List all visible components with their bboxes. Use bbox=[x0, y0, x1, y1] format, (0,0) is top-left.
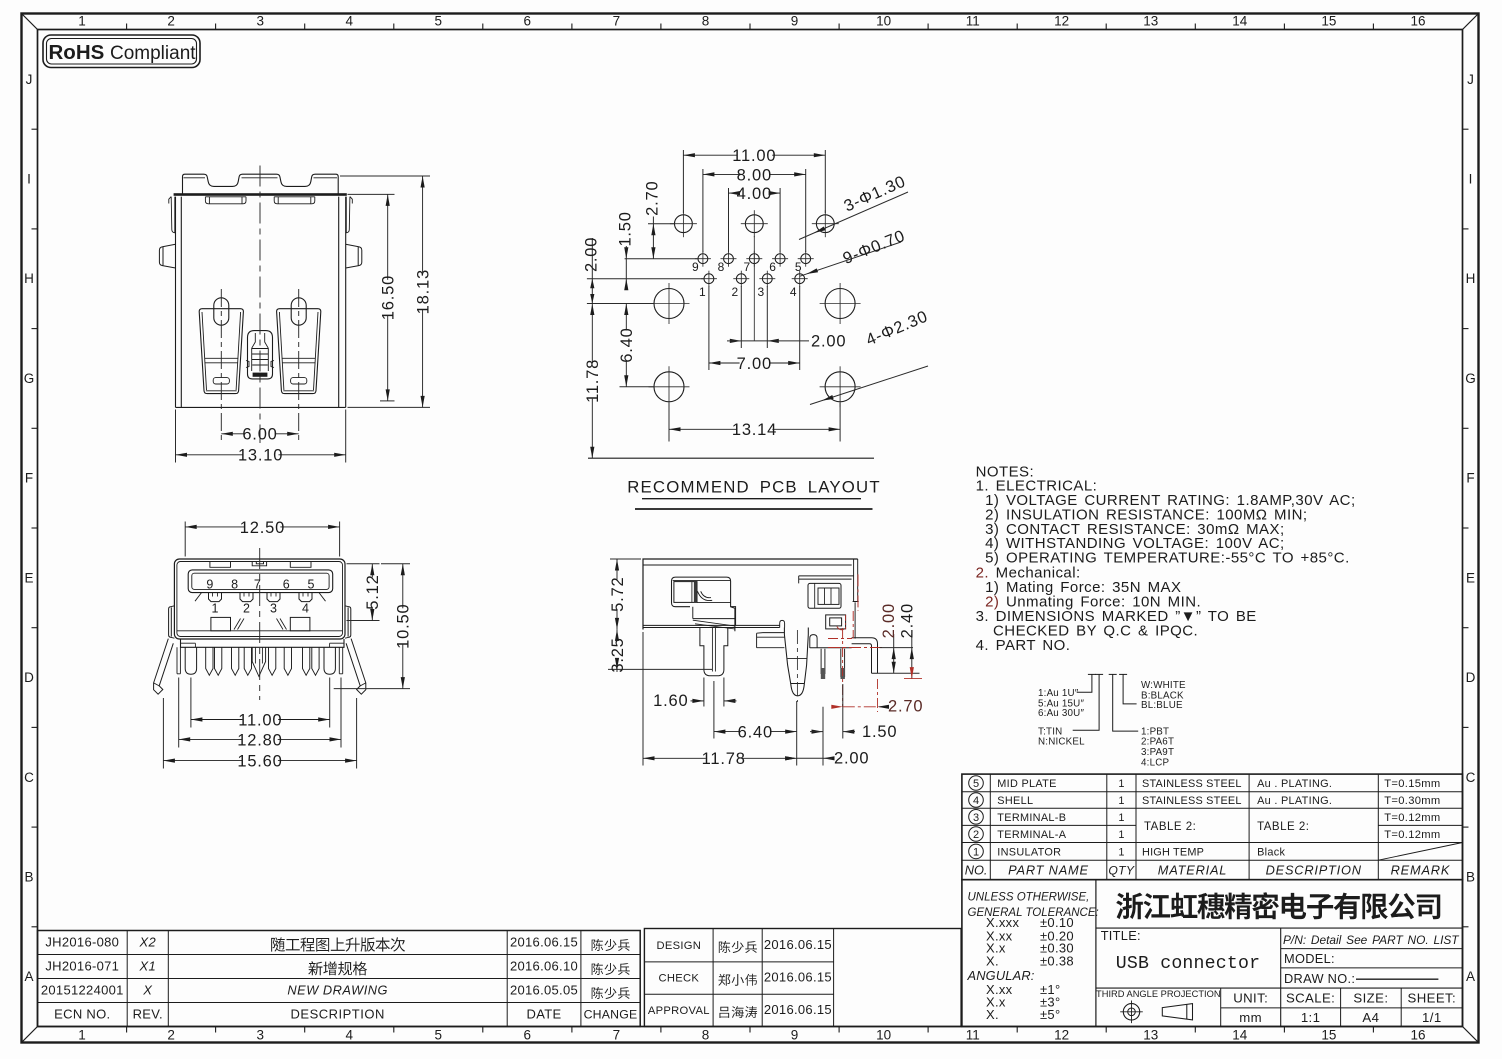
PCB dim 8.00 bbox=[703, 166, 806, 252]
svg-text:12: 12 bbox=[1054, 1028, 1069, 1043]
svg-text:11.00: 11.00 bbox=[732, 147, 776, 165]
svg-text:APPROVAL: APPROVAL bbox=[648, 1005, 710, 1017]
svg-text:Au . PLATING.: Au . PLATING. bbox=[1257, 778, 1332, 790]
svg-text:3.25: 3.25 bbox=[609, 637, 627, 672]
PCB dim 7.00 bbox=[709, 286, 800, 373]
svg-text:CHECK: CHECK bbox=[658, 973, 699, 985]
svg-text:USB connector: USB connector bbox=[1116, 954, 1261, 974]
dim 1.60 bbox=[653, 678, 736, 710]
svg-text:STAINLESS STEEL: STAINLESS STEEL bbox=[1142, 795, 1242, 807]
svg-text:2.00: 2.00 bbox=[811, 333, 846, 351]
svg-text:6.40: 6.40 bbox=[618, 327, 636, 362]
svg-text:B: B bbox=[1466, 870, 1475, 885]
svg-text:TITLE:: TITLE: bbox=[1101, 928, 1141, 943]
svg-text:A: A bbox=[1466, 969, 1475, 984]
svg-text:W:WHITE: W:WHITE bbox=[1141, 680, 1186, 691]
PCB layout: 9 x 0.70 pin holes bbox=[695, 251, 814, 287]
svg-text:STAINLESS STEEL: STAINLESS STEEL bbox=[1142, 778, 1242, 790]
svg-text:2: 2 bbox=[243, 601, 250, 615]
front view center line bbox=[259, 548, 261, 700]
PCB dim 4.00 bbox=[729, 185, 781, 252]
svg-text:J: J bbox=[1467, 72, 1474, 87]
svg-text:DATE: DATE bbox=[527, 1007, 562, 1022]
svg-text:SHEET:: SHEET: bbox=[1408, 991, 1457, 1006]
PCB dim 2.00 (vertical) bbox=[583, 237, 601, 304]
svg-text:CHANGE: CHANGE bbox=[584, 1008, 638, 1022]
svg-text:8: 8 bbox=[718, 260, 725, 274]
svg-text:7.00: 7.00 bbox=[737, 355, 772, 373]
svg-text:RECOMMEND PCB LAYOUT: RECOMMEND PCB LAYOUT bbox=[627, 478, 881, 497]
dim 11.78 side bbox=[643, 632, 797, 768]
top view spring contact at x=221.3 bbox=[199, 298, 243, 394]
approval table bbox=[644, 929, 961, 1027]
svg-text:8: 8 bbox=[231, 577, 238, 591]
svg-text:JH2016-080: JH2016-080 bbox=[45, 935, 119, 950]
dimension 13.10 bbox=[176, 410, 346, 465]
svg-text:T=0.30mm: T=0.30mm bbox=[1384, 795, 1440, 807]
svg-text:T:TIN: T:TIN bbox=[1038, 726, 1062, 737]
side view pointed solder pin bbox=[784, 628, 808, 696]
PCB dim 6.40 (vertical) bbox=[618, 304, 636, 387]
svg-text:DESCRIPTION: DESCRIPTION bbox=[1266, 863, 1362, 878]
svg-text:N:NICKEL: N:NICKEL bbox=[1038, 737, 1085, 748]
svg-text:5: 5 bbox=[973, 778, 979, 790]
svg-text:1:1: 1:1 bbox=[1301, 1010, 1321, 1025]
svg-text:2016.06.10: 2016.06.10 bbox=[510, 959, 578, 974]
svg-text:G: G bbox=[1465, 371, 1476, 386]
top view: USB connector shell (upper-left) bbox=[183, 174, 339, 193]
RoHS Compliant badge bbox=[43, 35, 200, 68]
svg-text:14: 14 bbox=[1232, 1028, 1248, 1043]
svg-text:SCALE:: SCALE: bbox=[1286, 991, 1335, 1006]
title block bbox=[962, 880, 1463, 1027]
front view side wings bbox=[169, 606, 351, 638]
svg-text:2016.06.15: 2016.06.15 bbox=[764, 970, 832, 985]
top view body bbox=[159, 193, 361, 407]
svg-text:X1: X1 bbox=[139, 959, 157, 974]
front view shell outline bbox=[174, 559, 345, 639]
svg-text:2.00: 2.00 bbox=[880, 603, 898, 638]
svg-text:8: 8 bbox=[702, 1028, 710, 1043]
svg-text:16.50: 16.50 bbox=[380, 275, 398, 320]
svg-text:2.40: 2.40 bbox=[899, 603, 917, 638]
svg-text:D: D bbox=[24, 670, 34, 685]
svg-text:C: C bbox=[1466, 770, 1476, 785]
side view right leg bbox=[852, 638, 878, 674]
dim 11.00 front bbox=[191, 678, 330, 730]
unit scale size sheet bbox=[1233, 991, 1456, 1025]
svg-text:1: 1 bbox=[1118, 778, 1124, 790]
svg-text:1.50: 1.50 bbox=[617, 211, 635, 246]
svg-text:2: 2 bbox=[731, 285, 738, 299]
front view top punch tabs bbox=[210, 562, 311, 568]
svg-text:RoHS: RoHS bbox=[49, 41, 105, 64]
svg-text:I: I bbox=[1469, 172, 1473, 187]
svg-text:5.72: 5.72 bbox=[609, 577, 627, 612]
svg-text:MID PLATE: MID PLATE bbox=[997, 778, 1056, 790]
svg-text:Compliant: Compliant bbox=[110, 43, 196, 64]
svg-text:7: 7 bbox=[613, 14, 621, 29]
svg-text:9: 9 bbox=[791, 14, 799, 29]
svg-text:MODEL:: MODEL: bbox=[1284, 951, 1335, 966]
svg-text:3:PA9T: 3:PA9T bbox=[1141, 747, 1174, 758]
svg-text:2.70: 2.70 bbox=[644, 181, 662, 216]
svg-text:2016.05.05: 2016.05.05 bbox=[510, 983, 578, 998]
svg-text:1: 1 bbox=[1118, 795, 1124, 807]
svg-text:E: E bbox=[24, 570, 33, 585]
svg-text:E: E bbox=[1466, 570, 1475, 585]
svg-text:1: 1 bbox=[212, 601, 219, 615]
svg-text:F: F bbox=[25, 471, 33, 486]
svg-text:11.00: 11.00 bbox=[238, 711, 282, 729]
svg-text:TABLE 2:: TABLE 2: bbox=[1144, 821, 1196, 833]
side view right insulator windows bbox=[799, 576, 855, 639]
BOM parts table bbox=[962, 774, 1463, 880]
front view terminal teeth bbox=[177, 647, 343, 674]
svg-text:2: 2 bbox=[167, 14, 175, 29]
dim 5.72 bbox=[609, 559, 641, 629]
PCB dim 11.00 bbox=[683, 147, 825, 213]
PCB pin7 center line bbox=[753, 236, 755, 341]
PCB label 9-x0.70 bbox=[800, 227, 908, 276]
svg-text:16: 16 bbox=[1410, 14, 1425, 29]
svg-text:11: 11 bbox=[966, 1028, 980, 1043]
svg-text:9: 9 bbox=[692, 260, 699, 274]
side view middle bracket and tail bbox=[643, 607, 852, 648]
front view insulator base bbox=[181, 639, 345, 647]
svg-text:2.00: 2.00 bbox=[583, 237, 601, 272]
svg-text:10: 10 bbox=[876, 14, 891, 29]
dim 10.50 bbox=[334, 564, 413, 689]
svg-text:15.60: 15.60 bbox=[237, 753, 282, 771]
company name (CJK) bbox=[1116, 892, 1440, 919]
side view terminal window bbox=[672, 577, 735, 631]
PCB dim 1.50 (vertical) bbox=[617, 211, 635, 290]
svg-text:6: 6 bbox=[283, 577, 290, 591]
svg-text:13: 13 bbox=[1143, 14, 1158, 29]
svg-text:INSULATOR: INSULATOR bbox=[997, 847, 1061, 859]
caption RECOMMEND PCB LAYOUT bbox=[627, 478, 881, 510]
svg-text:NEW DRAWING: NEW DRAWING bbox=[287, 983, 388, 998]
svg-text:2016.06.15: 2016.06.15 bbox=[764, 937, 832, 952]
dimension 6.00 bbox=[221, 426, 298, 444]
svg-text:UNLESS OTHERWISE,: UNLESS OTHERWISE, bbox=[968, 892, 1090, 904]
svg-text:A: A bbox=[24, 969, 33, 984]
svg-text:D: D bbox=[1466, 670, 1476, 685]
svg-text:1.50: 1.50 bbox=[862, 723, 897, 741]
svg-text:5: 5 bbox=[435, 1028, 443, 1043]
svg-text:SIZE:: SIZE: bbox=[1353, 991, 1388, 1006]
svg-text:TERMINAL-A: TERMINAL-A bbox=[997, 829, 1066, 841]
top view spring contact at x=298.7 bbox=[277, 298, 321, 394]
svg-text:P/N: Detail See PART NO. LIST: P/N: Detail See PART NO. LIST bbox=[1283, 933, 1459, 947]
svg-text:Black: Black bbox=[1257, 847, 1285, 859]
svg-text:1: 1 bbox=[1118, 847, 1124, 859]
svg-text:QTY: QTY bbox=[1108, 864, 1135, 878]
PCB layout: 3 x 1.30 holes bbox=[670, 210, 839, 237]
dim 2.40 vertical bbox=[899, 603, 923, 679]
svg-text:4.00: 4.00 bbox=[737, 185, 772, 203]
svg-text:8: 8 bbox=[702, 14, 710, 29]
svg-text:13.10: 13.10 bbox=[238, 447, 283, 465]
svg-text:2.70: 2.70 bbox=[888, 698, 923, 716]
svg-text:DRAW NO.:: DRAW NO.: bbox=[1284, 971, 1355, 986]
front view mid punch windows bbox=[177, 617, 343, 630]
svg-text:mm: mm bbox=[1239, 1010, 1262, 1025]
svg-text:F: F bbox=[1466, 471, 1474, 486]
svg-text:T=0.15mm: T=0.15mm bbox=[1384, 778, 1440, 790]
svg-text:PART NAME: PART NAME bbox=[1008, 863, 1089, 878]
svg-text:2016.06.15: 2016.06.15 bbox=[510, 935, 578, 950]
svg-text:X: X bbox=[142, 983, 153, 998]
dim 12.80 bbox=[179, 678, 341, 750]
notes text bbox=[976, 464, 1356, 654]
svg-text:HIGH TEMP: HIGH TEMP bbox=[1142, 847, 1204, 859]
svg-text:1: 1 bbox=[78, 14, 86, 29]
svg-text:X.: X. bbox=[986, 1007, 999, 1022]
svg-text:±0.38: ±0.38 bbox=[1040, 953, 1074, 968]
svg-text:X2: X2 bbox=[139, 935, 157, 950]
svg-text:NO.: NO. bbox=[965, 863, 988, 878]
svg-text:1: 1 bbox=[973, 846, 979, 858]
svg-text:5.12: 5.12 bbox=[364, 574, 382, 609]
svg-text:1.60: 1.60 bbox=[653, 692, 688, 710]
dim 1.50 side bbox=[810, 684, 897, 741]
svg-text:6:Au 30U″: 6:Au 30U″ bbox=[1038, 708, 1084, 719]
svg-text:6.00: 6.00 bbox=[242, 426, 277, 444]
svg-text:BL:BLUE: BL:BLUE bbox=[1141, 700, 1183, 711]
svg-text:4:LCP: 4:LCP bbox=[1141, 758, 1169, 769]
svg-text:4: 4 bbox=[345, 14, 353, 29]
svg-text:H: H bbox=[1466, 271, 1476, 286]
dim 2.70 red bbox=[831, 679, 923, 716]
dim 2.00 side bottom bbox=[785, 707, 869, 768]
side view red datum lines bbox=[828, 574, 885, 706]
svg-text:6: 6 bbox=[524, 1028, 532, 1043]
svg-text:MATERIAL: MATERIAL bbox=[1158, 863, 1227, 878]
PCB dim 2.00 pins 2-3 bbox=[727, 286, 846, 351]
svg-text:1: 1 bbox=[1118, 812, 1124, 824]
PCB dim 2.70 (vertical) bbox=[644, 181, 662, 259]
svg-text:18.13: 18.13 bbox=[415, 269, 433, 314]
svg-text:C: C bbox=[24, 770, 34, 785]
svg-text:4: 4 bbox=[345, 1028, 353, 1043]
svg-text:3: 3 bbox=[256, 14, 264, 29]
svg-text:2: 2 bbox=[973, 829, 979, 841]
svg-text:2:PA6T: 2:PA6T bbox=[1141, 737, 1174, 748]
svg-text:5: 5 bbox=[435, 14, 443, 29]
svg-text:UNIT:: UNIT: bbox=[1233, 991, 1268, 1006]
svg-text:2016.06.15: 2016.06.15 bbox=[764, 1002, 832, 1017]
dimension 16.50 bbox=[348, 194, 398, 401]
svg-text:5: 5 bbox=[795, 260, 802, 274]
dimension 18.13 bbox=[340, 176, 433, 407]
svg-text:12.50: 12.50 bbox=[240, 519, 285, 537]
dim 15.60 bbox=[163, 698, 356, 771]
svg-text:3: 3 bbox=[757, 285, 764, 299]
svg-text:1: 1 bbox=[1118, 829, 1124, 841]
front view solder legs bbox=[154, 639, 366, 695]
svg-text:6.40: 6.40 bbox=[738, 724, 773, 742]
svg-text:5: 5 bbox=[308, 577, 315, 591]
svg-text:1: 1 bbox=[699, 285, 706, 299]
front view tongue with pins 9-5 bbox=[188, 570, 333, 593]
svg-text:DESCRIPTION: DESCRIPTION bbox=[291, 1007, 385, 1022]
svg-text:15: 15 bbox=[1321, 1028, 1336, 1043]
svg-text:12.80: 12.80 bbox=[237, 731, 282, 749]
PCB dim 11.78 (vertical) bbox=[584, 304, 602, 459]
svg-text:8.00: 8.00 bbox=[737, 166, 772, 184]
svg-text:REV.: REV. bbox=[133, 1007, 163, 1022]
svg-text:14: 14 bbox=[1232, 14, 1248, 29]
svg-text:J: J bbox=[26, 72, 33, 87]
tolerance text bbox=[967, 892, 1099, 1022]
svg-text:20151224001: 20151224001 bbox=[41, 983, 124, 998]
svg-text:3: 3 bbox=[973, 812, 979, 824]
svg-text:10: 10 bbox=[876, 1028, 891, 1043]
svg-text:6: 6 bbox=[524, 14, 532, 29]
top view center line bbox=[259, 166, 261, 444]
svg-text:TABLE 2:: TABLE 2: bbox=[1257, 821, 1309, 833]
svg-text:3: 3 bbox=[270, 601, 277, 615]
svg-text:2: 2 bbox=[167, 1028, 175, 1043]
dim 3.25 bbox=[608, 629, 712, 672]
svg-text:11: 11 bbox=[966, 14, 980, 29]
svg-text:9: 9 bbox=[791, 1028, 799, 1043]
svg-text:6: 6 bbox=[769, 260, 776, 274]
svg-text:13.14: 13.14 bbox=[732, 421, 777, 439]
top view center latch piece bbox=[246, 331, 274, 379]
side view center terminal pin bbox=[700, 628, 728, 676]
PCB layout: 4 x 2.30 holes bbox=[649, 283, 861, 407]
svg-text:9: 9 bbox=[206, 577, 213, 591]
PCB dim 13.14 bbox=[669, 403, 840, 442]
svg-text:10.50: 10.50 bbox=[395, 604, 413, 649]
svg-text:A4: A4 bbox=[1362, 1010, 1379, 1025]
svg-text:4: 4 bbox=[302, 601, 309, 615]
svg-text:1: 1 bbox=[78, 1028, 86, 1043]
svg-text:T=0.12mm: T=0.12mm bbox=[1384, 829, 1440, 841]
svg-text:DESIGN: DESIGN bbox=[656, 940, 701, 952]
svg-text:13: 13 bbox=[1143, 1028, 1158, 1043]
side view thin pins bbox=[821, 649, 845, 679]
svg-text:11.78: 11.78 bbox=[702, 750, 746, 768]
svg-text:T=0.12mm: T=0.12mm bbox=[1384, 812, 1440, 824]
svg-text:4: 4 bbox=[790, 285, 797, 299]
svg-text:4: 4 bbox=[973, 795, 979, 807]
PCB extension lines bbox=[587, 224, 874, 459]
svg-text:JH2016-071: JH2016-071 bbox=[45, 959, 119, 974]
third angle projection symbol bbox=[1096, 989, 1221, 1023]
svg-text:THIRD ANGLE PROJECTION: THIRD ANGLE PROJECTION bbox=[1096, 989, 1221, 999]
front view contacts 1-4 bbox=[195, 593, 326, 602]
side view body bbox=[643, 559, 859, 630]
svg-text:B: B bbox=[24, 870, 33, 885]
revision table bbox=[38, 931, 641, 1027]
svg-text:7: 7 bbox=[743, 260, 750, 274]
svg-text:Au . PLATING.: Au . PLATING. bbox=[1257, 795, 1332, 807]
svg-text:1:PBT: 1:PBT bbox=[1141, 726, 1169, 737]
svg-text:16: 16 bbox=[1410, 1028, 1425, 1043]
svg-text:ECN NO.: ECN NO. bbox=[54, 1007, 110, 1022]
svg-text:4. PART NO.: 4. PART NO. bbox=[976, 637, 1071, 654]
dim 5.12 bbox=[347, 564, 383, 621]
contact center lines bbox=[220, 289, 222, 440]
part number legend diagram bbox=[1073, 674, 1139, 731]
svg-text:2.00: 2.00 bbox=[834, 750, 869, 768]
PCB label 4-x2.30 bbox=[810, 307, 931, 404]
svg-text:12: 12 bbox=[1054, 14, 1069, 29]
PCB label 3-x1.30 bbox=[799, 172, 909, 239]
svg-text:I: I bbox=[27, 172, 31, 187]
svg-text:1/1: 1/1 bbox=[1422, 1010, 1442, 1025]
PCB layout pin numbers bbox=[692, 260, 802, 299]
svg-text:3: 3 bbox=[256, 1028, 264, 1043]
svg-text:11.78: 11.78 bbox=[584, 359, 602, 403]
svg-text:G: G bbox=[24, 371, 35, 386]
dim 2.00 red vertical bbox=[878, 603, 920, 673]
dim 12.50 bbox=[185, 519, 339, 557]
svg-text:SHELL: SHELL bbox=[997, 795, 1033, 807]
svg-text:7: 7 bbox=[613, 1028, 621, 1043]
svg-text:15: 15 bbox=[1321, 14, 1336, 29]
svg-text:TERMINAL-B: TERMINAL-B bbox=[997, 812, 1066, 824]
svg-text:X.: X. bbox=[986, 953, 999, 968]
svg-text:H: H bbox=[24, 271, 34, 286]
svg-text:REMARK: REMARK bbox=[1391, 863, 1451, 878]
dim 6.40 side bbox=[714, 681, 797, 742]
svg-text:±5°: ±5° bbox=[1040, 1007, 1060, 1022]
